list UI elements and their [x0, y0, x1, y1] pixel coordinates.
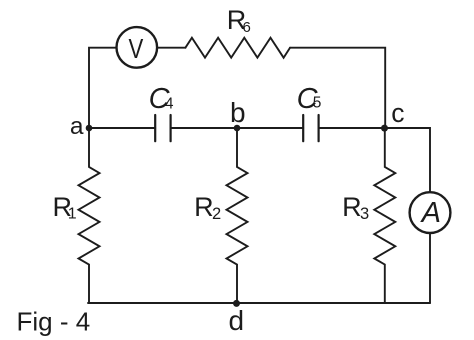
- svg-text:Fig - 4: Fig - 4: [17, 306, 91, 336]
- svg-text:A: A: [420, 197, 441, 229]
- svg-text:3: 3: [360, 205, 369, 223]
- svg-text:V: V: [129, 33, 144, 64]
- svg-text:R: R: [342, 192, 362, 222]
- svg-text:5: 5: [313, 95, 322, 112]
- svg-text:2: 2: [212, 205, 221, 223]
- svg-text:6: 6: [243, 19, 251, 36]
- svg-text:c: c: [391, 98, 404, 128]
- svg-text:1: 1: [68, 205, 77, 222]
- svg-text:b: b: [230, 97, 246, 128]
- svg-text:a: a: [70, 113, 84, 140]
- svg-text:4: 4: [165, 96, 174, 113]
- svg-text:R: R: [194, 192, 214, 222]
- svg-text:d: d: [229, 305, 245, 336]
